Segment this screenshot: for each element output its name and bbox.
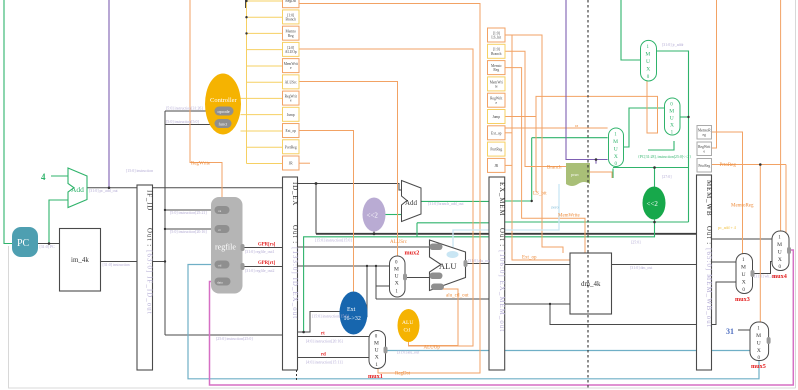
- svg-text:ALUSrc: ALUSrc: [390, 240, 408, 245]
- wire dm wdata + bypass: [505, 303, 570, 305]
- clock dashed line: [587, 0, 589, 390]
- pin nubs: [241, 244, 792, 354]
- wire alu out: [466, 263, 490, 265]
- wire Branch orange: [505, 51, 566, 166]
- svg-text:U: U: [395, 274, 399, 280]
- wire shift out to Add2: [386, 214, 402, 216]
- svg-text:RegDst: RegDst: [285, 0, 296, 3]
- svg-text:[31:0] jr_addr: [31:0] jr_addr: [662, 43, 684, 47]
- wire jump base green: [532, 137, 608, 139]
- wire ALUSrc orange: [299, 82, 398, 257]
- mux4: [772, 231, 789, 280]
- wire rt read: [165, 228, 215, 230]
- svg-text:[31:0] PC: [31:0] PC: [40, 245, 56, 249]
- wire pc_add+4 thick bus EX: [316, 233, 489, 235]
- wire next-pc green left loop: [4, 0, 12, 244]
- wire pcsrc out orange: [590, 172, 612, 178]
- svg-text:PrtoReg: PrtoReg: [720, 163, 737, 168]
- svg-text:M: M: [741, 265, 746, 271]
- svg-text:LS_bit: LS_bit: [533, 192, 547, 197]
- wire regfile outputs: [243, 247, 283, 249]
- wire mux1/write-reg cyan loop: [386, 350, 751, 352]
- svg-text:X: X: [670, 123, 674, 129]
- svg-text:[15:0] instruction[15:0]: [15:0] instruction[15:0]: [312, 315, 349, 319]
- wire pc_add_out: [87, 187, 137, 189]
- wire ra: [165, 209, 215, 211]
- control box column ID (ID_EX head): [283, 0, 300, 170]
- svg-text:Branch: Branch: [547, 166, 562, 171]
- wire RegDst orange: [299, 4, 480, 374]
- svg-text:Jump: Jump: [287, 113, 295, 117]
- svg-text:M: M: [613, 139, 618, 145]
- svg-text:M: M: [669, 109, 674, 115]
- mux2: [390, 240, 420, 297]
- svg-text:M: M: [645, 52, 650, 58]
- svg-text:EX_MEM: EX_MEM: [498, 182, 506, 216]
- svg-text:[5:0] instruction[20:16]: [5:0] instruction[20:16]: [170, 230, 207, 234]
- wire store data to EX_MEM: [376, 298, 489, 300]
- svg-text:MemWrite: MemWrite: [558, 214, 581, 219]
- frame border: [9, 246, 796, 388]
- svg-text:funct: funct: [219, 122, 228, 127]
- svg-text:RegWrite: RegWrite: [191, 162, 211, 167]
- shifter <<2 green (jump): [638, 155, 691, 220]
- svg-text:31: 31: [726, 327, 734, 336]
- ALU: [430, 240, 492, 299]
- im_4k memory: [60, 229, 101, 292]
- svg-text:im_4k: im_4k: [71, 256, 89, 264]
- svg-text:mux1: mux1: [368, 373, 383, 380]
- wire alu result to mux3 in0: [712, 282, 737, 325]
- wire RegWrite orange wrap: [190, 0, 222, 197]
- svg-text:U: U: [670, 116, 674, 122]
- svg-text:LS_bit: LS_bit: [491, 36, 501, 40]
- wire const 31: [738, 329, 750, 331]
- mux jump green: [665, 98, 681, 136]
- register EX_MEM: [489, 177, 506, 370]
- mux5: [726, 322, 769, 370]
- adder Add (PC+4): [41, 168, 119, 208]
- svg-text:zero: zero: [551, 205, 559, 210]
- wire branch_add_out: [421, 200, 489, 202]
- wire LS_bit orange: [505, 35, 563, 253]
- wire branch target MEM green: [505, 221, 689, 223]
- svg-text:U: U: [614, 147, 618, 153]
- PC: [12, 227, 55, 257]
- svg-text:Out : [106:0] EX_MEM_out: Out : [106:0] EX_MEM_out: [498, 228, 505, 332]
- svg-text:Ctl: Ctl: [404, 328, 411, 334]
- wire dm addr: [505, 264, 570, 266]
- svg-text:Out : [65:0] MEM_WB_out: Out : [65:0] MEM_WB_out: [705, 226, 712, 328]
- svg-text:JR: JR: [289, 162, 293, 166]
- svg-text:[27:0]: [27:0]: [662, 175, 672, 179]
- svg-text:ALU: ALU: [402, 320, 413, 326]
- svg-text:GPR[rt]: GPR[rt]: [258, 261, 275, 266]
- shifter <<2 (imm): [363, 198, 386, 232]
- mux branch green: [609, 128, 624, 167]
- svg-text:Out : [133:0] ID_EX_out: Out : [133:0] ID_EX_out: [291, 225, 298, 319]
- svg-text:[31:0] regfile_out2: [31:0] regfile_out2: [245, 269, 275, 273]
- svg-text:Ext_op: Ext_op: [491, 131, 502, 135]
- svg-text:mux3: mux3: [735, 296, 750, 303]
- svg-text:rd: rd: [219, 264, 222, 268]
- svg-text:ALU: ALU: [439, 261, 456, 271]
- wire instruction[25:0]: [165, 334, 283, 336]
- wire RegWrite WB wrap: [712, 0, 717, 148]
- svg-text:<<2: <<2: [647, 200, 659, 208]
- svg-text:[4:0] instruction[15:11]: [4:0] instruction[15:11]: [306, 361, 343, 365]
- wire GPR[rs] to ALU: [298, 246, 430, 248]
- wire pc+4 tap green: [49, 200, 68, 244]
- mux3: [735, 254, 777, 304]
- svg-text:[5:0] instruction[25:21]: [5:0] instruction[25:21]: [170, 211, 207, 215]
- wire purple pcsrc: [566, 0, 608, 160]
- wire GPR[rt] to mux2 in0: [298, 265, 390, 267]
- svg-text:Ext: Ext: [347, 307, 356, 313]
- svg-text:[31:0] dm_out: [31:0] dm_out: [630, 266, 653, 270]
- wire dm_out to mux3: [712, 261, 737, 263]
- svg-text:Add: Add: [405, 199, 418, 207]
- wire yellow controller fanout: [246, 1, 248, 164]
- wire JR stub: [299, 162, 310, 164]
- Ext 16->32: [340, 292, 368, 335]
- control box column WB (MEM_WB head): [697, 126, 712, 173]
- svg-text:M: M: [777, 242, 782, 248]
- svg-text:Branch: Branch: [491, 52, 502, 56]
- svg-text:mux4: mux4: [772, 273, 787, 280]
- svg-text:Reg: Reg: [493, 68, 499, 72]
- svg-text:rd: rd: [321, 353, 326, 358]
- svg-text:Reg: Reg: [288, 34, 294, 38]
- register IF_ID: [137, 185, 154, 370]
- svg-text:[31:0] branch_add_out: [31:0] branch_add_out: [428, 202, 464, 206]
- svg-text:U: U: [375, 348, 379, 354]
- register ID_EX: [283, 177, 300, 370]
- wire zero lightblue: [453, 184, 559, 251]
- wire pc_add+4 to mux4: [712, 238, 773, 240]
- svg-text:[15:0] instruction: [15:0] instruction: [126, 169, 153, 173]
- svg-text:X: X: [614, 154, 618, 160]
- wire instruction im to IF_ID: [101, 261, 138, 263]
- wire mux2 in1: [376, 285, 390, 287]
- svg-text:[5:0] instruction[5:0]: [5:0] instruction[5:0]: [166, 120, 199, 124]
- wire dm out: [612, 264, 697, 266]
- svg-text:JR: JR: [494, 164, 498, 168]
- mux1: [306, 331, 420, 381]
- svg-text:[31:0] alu_out: [31:0] alu_out: [468, 259, 491, 263]
- wire mux5 select: [712, 164, 787, 166]
- wire MemWrite orange: [505, 68, 585, 253]
- svg-text:[25:0]: [25:0]: [631, 241, 641, 245]
- wire const 4 into Add: [51, 175, 68, 177]
- svg-text:Controller: Controller: [210, 97, 238, 104]
- svg-text:[4:0] instruction[20:16]: [4:0] instruction[20:16]: [306, 340, 343, 344]
- wire green cluster links: [621, 0, 641, 60]
- svg-text:[31:0] alu_out: [31:0] alu_out: [397, 351, 420, 355]
- svg-text:pcsrc: pcsrc: [571, 173, 579, 177]
- svg-text:ALUOp: ALUOp: [285, 50, 297, 54]
- wire mux4 select: [780, 0, 782, 231]
- svg-text:<<2: <<2: [367, 212, 379, 220]
- adder Add (branch): [402, 181, 465, 222]
- wire mux2 out to ALU: [405, 277, 430, 279]
- svg-text:ID_EX: ID_EX: [291, 182, 299, 206]
- svg-text:eg: eg: [703, 133, 707, 137]
- svg-text:alu_ctl_out: alu_ctl_out: [446, 294, 469, 299]
- wire mux3 out to mux4: [753, 262, 773, 274]
- svg-text:dm_4k: dm_4k: [581, 280, 601, 288]
- svg-text:U: U: [646, 59, 650, 65]
- wire rt field to mux1: [298, 336, 370, 338]
- svg-text:X: X: [375, 355, 379, 361]
- mux jr green: [641, 40, 685, 81]
- control box column MEM (EX_MEM head): [488, 28, 506, 172]
- svg-text:[31:0] instruction: [31:0] instruction: [103, 263, 130, 267]
- controller: [166, 74, 241, 167]
- wire Ext_op orange col1: [299, 131, 354, 300]
- svg-text:mux2: mux2: [405, 250, 420, 257]
- svg-text:MEM_WB: MEM_WB: [705, 180, 713, 216]
- svg-text:PrtoReg: PrtoReg: [698, 164, 710, 168]
- wire pc to im_4k: [38, 243, 60, 245]
- svg-text:ra: ra: [575, 123, 578, 128]
- svg-text:rt: rt: [219, 228, 221, 232]
- wire alu_ctl_out orange: [409, 287, 459, 346]
- wire imm green riser to <<2 via bus: [373, 231, 375, 234]
- wire Jump orange: [505, 77, 658, 133]
- svg-text:PortReg: PortReg: [285, 145, 297, 149]
- wire ALUOp orange: [299, 49, 473, 346]
- wire purple pc_add tap: [108, 0, 110, 188]
- svg-text:ALUSrc: ALUSrc: [285, 80, 298, 84]
- svg-text:4: 4: [41, 172, 46, 182]
- svg-text:ALUOp: ALUOp: [424, 346, 441, 351]
- svg-text:[5:0] instruction[31:26]: [5:0] instruction[31:26]: [166, 107, 203, 111]
- svg-text:U: U: [778, 250, 782, 256]
- svg-text:M: M: [374, 341, 379, 347]
- svg-text:RegDst: RegDst: [395, 372, 411, 377]
- svg-text:X: X: [757, 348, 761, 354]
- svg-text:opcode: opcode: [218, 109, 230, 114]
- svg-text:mux5: mux5: [751, 363, 766, 370]
- svg-text:te: te: [495, 85, 498, 89]
- svg-text:[25:0] instruction[25:0]: [25:0] instruction[25:0]: [216, 337, 253, 341]
- svg-text:Add: Add: [71, 185, 84, 194]
- wire opcode: [165, 110, 215, 112]
- svg-text:M: M: [394, 267, 399, 273]
- wire rd field to mux1: [298, 357, 370, 359]
- wire rt drop to store bus: [375, 266, 377, 299]
- pcsrc unit: [566, 163, 590, 186]
- wire instr[15:0] green: [304, 237, 655, 332]
- regfile: [170, 197, 276, 294]
- svg-text:[31:0] regfile_out1: [31:0] regfile_out1: [245, 250, 275, 254]
- wire pc_add drop to EX bus: [315, 184, 317, 234]
- svg-text:GPR[rs]: GPR[rs]: [258, 243, 276, 248]
- svg-text:data: data: [217, 281, 223, 285]
- svg-text:X: X: [778, 257, 782, 263]
- svg-text:Branch: Branch: [286, 18, 297, 22]
- svg-text:pc_add + 4: pc_add + 4: [718, 225, 736, 230]
- wire ext out riser: [365, 266, 368, 317]
- dm_4k memory: [570, 253, 612, 314]
- svg-text:X: X: [395, 281, 399, 287]
- svg-text:PortReg: PortReg: [490, 148, 502, 152]
- svg-text:X: X: [742, 280, 746, 286]
- ALU Ctl: [398, 309, 441, 351]
- svg-text:Ext_op: Ext_op: [522, 256, 537, 261]
- svg-text:rt: rt: [321, 332, 325, 337]
- wire write data magenta loop: [210, 250, 794, 385]
- svg-text:MemtoReg: MemtoReg: [731, 204, 754, 209]
- svg-text:IF_ID: IF_ID: [146, 190, 154, 211]
- svg-text:Out : [63:0] IF_ID_out: Out : [63:0] IF_ID_out: [145, 228, 152, 315]
- svg-text:X: X: [646, 67, 650, 73]
- wire Ext_op orange MEM: [505, 132, 512, 134]
- svg-text:U: U: [742, 272, 746, 278]
- wire MemtoReg select: [712, 132, 743, 254]
- wire pc_add through ID, into branch Add: [153, 187, 283, 189]
- svg-text:regfile: regfile: [215, 243, 236, 252]
- svg-text:U: U: [757, 341, 761, 347]
- svg-text:Ext_op: Ext_op: [286, 129, 297, 133]
- svg-text:[15:0] instruction[15:0]: [15:0] instruction[15:0]: [315, 239, 352, 243]
- svg-text:M: M: [756, 333, 761, 339]
- svg-text:[31:0] pc_add_out: [31:0] pc_add_out: [89, 189, 119, 193]
- svg-text:PC: PC: [17, 238, 30, 249]
- register MEM_WB: [697, 175, 714, 370]
- wire funct: [165, 124, 215, 126]
- wire instruction bus right of IF_ID: [153, 261, 166, 263]
- svg-text:Jump: Jump: [492, 115, 500, 119]
